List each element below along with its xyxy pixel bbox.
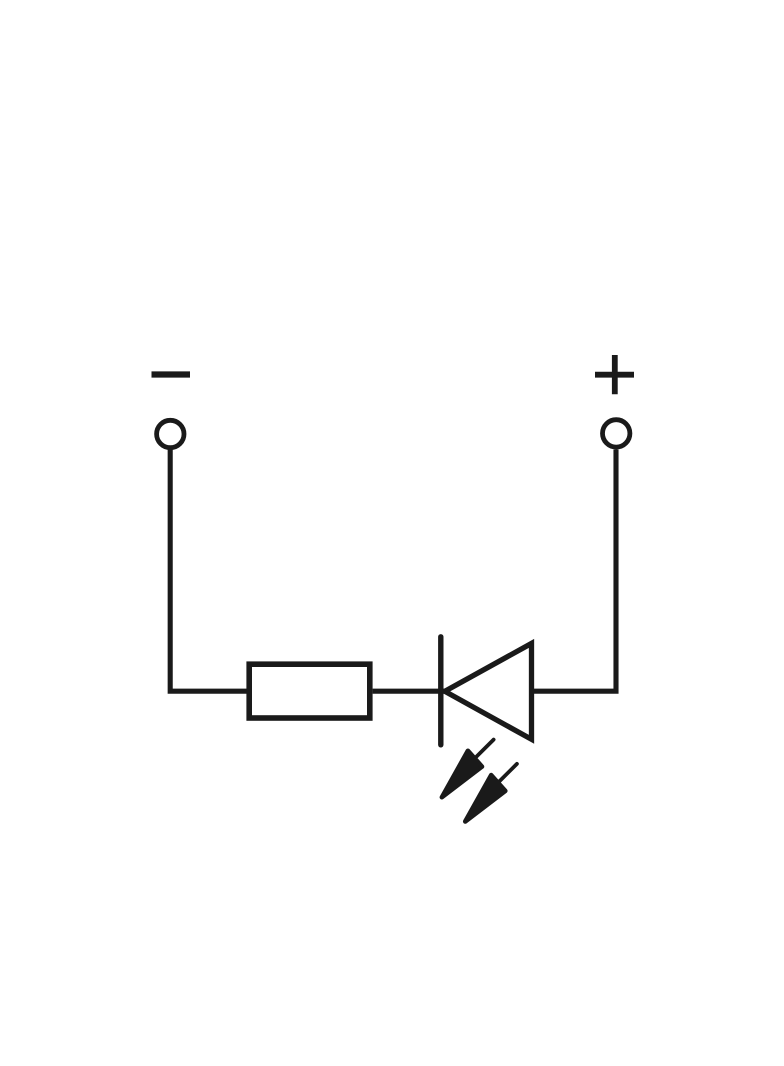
terminal circle (plus side) [603,420,630,447]
light emission arrow 2 [465,764,517,822]
light emission arrow 1 [442,740,494,798]
LED D1 anode triangle [445,643,532,739]
plus polarity label [595,355,634,394]
terminal circle (minus side) [157,420,184,447]
minus polarity label [152,371,191,377]
wire: resistor to LED cathode [373,689,447,694]
resistor R1 [249,664,370,718]
wire: minus terminal lead down and right to resistor [170,450,247,692]
wire: LED to plus terminal lead [534,450,616,692]
LED D1 cathode bar [438,637,443,745]
